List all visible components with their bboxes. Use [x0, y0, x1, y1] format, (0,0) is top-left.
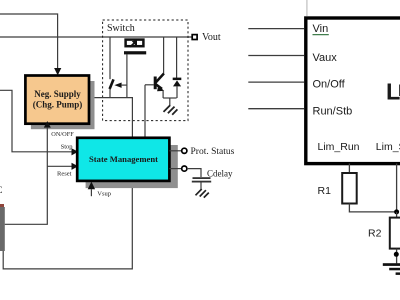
wire Prot Status stub — [169, 150, 181, 152]
wire base control to state mgmt — [144, 85, 146, 139]
wire uC to state mgmt bottom — [3, 184, 132, 269]
transistor Q1 — [154, 77, 157, 90]
pin Vaux — [248, 55, 304, 57]
wire Stop feed — [0, 90, 72, 152]
transistor M1 gate bar — [124, 51, 146, 54]
svg-text:Vout: Vout — [202, 32, 221, 43]
terminal Vout — [192, 35, 197, 40]
wire to ground — [169, 98, 171, 106]
switch blade — [110, 79, 114, 89]
capacitor Cdelay — [193, 177, 211, 179]
svg-text:On/Off: On/Off — [313, 79, 346, 91]
svg-text:Lim_St: Lim_St — [376, 141, 400, 153]
svg-text:Prot. Status: Prot. Status — [191, 147, 235, 157]
svg-text:R1: R1 — [318, 185, 332, 197]
block U3 State Management — [77, 138, 169, 181]
arrow Vsup into state mgmt bottom — [88, 182, 95, 190]
wire Q1 emitter — [162, 91, 164, 99]
svg-text:Vaux: Vaux — [313, 52, 338, 64]
wire Vin bus to Vout terminal — [0, 36, 192, 38]
node junction 2 — [394, 252, 399, 257]
svg-text:Lim_Run: Lim_Run — [318, 141, 360, 153]
wire switch pole from Vin bus — [109, 37, 111, 79]
terminal Cdelay — [182, 166, 187, 171]
resistor R2 — [390, 218, 400, 249]
switch actuator arrowhead — [114, 83, 121, 88]
svg-text:Vin: Vin — [313, 23, 329, 35]
wire Neg Supply out to state mgmt — [89, 98, 132, 139]
svg-text:Switch: Switch — [107, 23, 135, 34]
diode D1 cathode bar — [173, 78, 182, 81]
block uC (cut off) red cap — [0, 204, 4, 210]
svg-text:(Chg. Pump): (Chg. Pump) — [33, 100, 83, 110]
wire R2 bottom — [396, 249, 398, 264]
transistor M1 body — [126, 40, 144, 47]
wire switch bottom — [109, 89, 111, 98]
svg-text:R2: R2 — [368, 228, 382, 240]
svg-text:State Management: State Management — [89, 154, 158, 164]
wire actuator — [121, 84, 127, 86]
svg-text:C: C — [0, 185, 3, 195]
svg-text:Reset: Reset — [57, 171, 72, 178]
resistor R1 — [342, 173, 357, 204]
wire node to R2 — [396, 212, 398, 218]
switch box (dashed) — [103, 20, 188, 121]
wire top feed to Neg Supply — [0, 14, 58, 69]
wire Cdelay stub — [169, 168, 181, 170]
pin Vin — [248, 28, 304, 30]
svg-text:Cdelay: Cdelay — [207, 169, 233, 179]
wire Reset branch — [47, 165, 72, 167]
svg-text:Run/Stb: Run/Stb — [313, 105, 353, 117]
wire capacitor to ground — [200, 183, 202, 190]
terminal Prot. Status — [182, 148, 187, 153]
ground (chassis) under Cdelay — [196, 189, 209, 198]
block U2 Neg. Supply shadow — [31, 81, 95, 129]
arrow into Neg Supply top — [54, 68, 61, 75]
pin to R1 — [348, 164, 350, 174]
block uC (cut off) — [0, 207, 5, 251]
block U2 Neg. Supply — [25, 76, 89, 124]
block U3 State Management shadow — [86, 145, 178, 188]
wire Vsup stub — [90, 189, 92, 196]
wire R1 bottom to node — [349, 204, 396, 212]
diode D1 top wire — [176, 37, 178, 78]
svg-text:Vsup: Vsup — [97, 191, 111, 198]
pin Run/Stb — [248, 108, 304, 110]
svg-text:Neg. Supply: Neg. Supply — [34, 89, 81, 99]
wire Q1 base — [145, 84, 154, 86]
pin On/Off — [248, 81, 304, 83]
transistor M1 arrow — [130, 43, 134, 47]
node junction — [394, 209, 399, 214]
wire gate to actuator — [126, 54, 128, 97]
svg-text:ON/OFF: ON/OFF — [51, 131, 74, 138]
IC U1 outline — [306, 18, 400, 164]
faint stub above IC corner — [306, 0, 308, 16]
wire D1 anode — [176, 86, 178, 98]
pin to node — [396, 164, 398, 212]
ground (chassis) — [164, 105, 178, 115]
ground (earth) — [383, 263, 400, 266]
wire to capacitor — [187, 169, 201, 177]
arrow Reset — [72, 163, 79, 170]
transistor M1 divider — [135, 39, 137, 47]
transistor Q1 collector wire — [163, 37, 165, 74]
svg-text:Stop: Stop — [61, 144, 73, 151]
arrow Stop — [72, 148, 79, 155]
arrow ON/OFF into Neg Supply bottom — [44, 121, 51, 128]
diode D1 — [173, 80, 181, 86]
wire ON/OFF control — [5, 128, 48, 225]
wire emitter-diode join — [163, 97, 177, 99]
